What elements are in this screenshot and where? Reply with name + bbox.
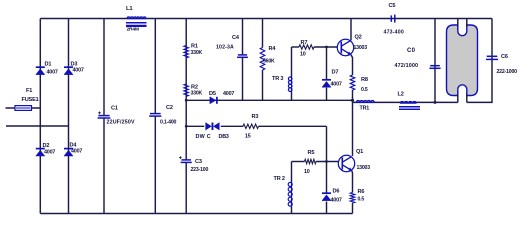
- capacitor C1: [98, 112, 111, 119]
- label C1: [111, 106, 118, 112]
- inductor L2: [399, 102, 420, 110]
- svg-text:R5: R5: [308, 150, 315, 156]
- wire C4 column: [242, 19, 244, 101]
- diode D1: [36, 67, 45, 74]
- svg-text:TR 2: TR 2: [274, 176, 285, 182]
- label Q2: [355, 35, 362, 41]
- resistor R7: [299, 45, 314, 49]
- node mid-rail/R2: [185, 99, 188, 102]
- svg-text:0.5: 0.5: [358, 197, 365, 203]
- svg-text:C4: C4: [232, 35, 240, 41]
- wire lamp bottom-left pin: [457, 94, 459, 103]
- label R4 value: [263, 59, 275, 65]
- svg-text:472/1000: 472/1000: [395, 63, 419, 69]
- svg-text:TR 3: TR 3: [272, 76, 283, 82]
- wire R6 to ground rail: [352, 203, 354, 214]
- wire left lamp branch (C0 branch): [434, 19, 436, 103]
- wire R4 column: [262, 19, 264, 101]
- zener DW right: [213, 123, 220, 130]
- label C1 value: [107, 120, 135, 126]
- label TR1: [360, 106, 370, 112]
- node L2/C0 junction: [434, 101, 437, 104]
- label D4: [70, 143, 83, 155]
- svg-text:Q2: Q2: [355, 35, 362, 41]
- transformer winding TR2: [288, 182, 292, 207]
- svg-text:C1: C1: [111, 106, 118, 112]
- svg-text:D2: D2: [43, 143, 50, 149]
- transformer winding TR1: [356, 100, 374, 102]
- wire C1 column: [103, 19, 105, 214]
- wire Q2 collector: [350, 19, 352, 41]
- transistor Q2: [337, 39, 353, 55]
- wire DW line: [186, 126, 326, 161]
- svg-text:13003: 13003: [354, 45, 368, 51]
- resistor R1: [184, 46, 189, 58]
- svg-text:C5: C5: [389, 3, 396, 9]
- wire D1/D2 column: [39, 19, 41, 214]
- label R8: [361, 77, 368, 93]
- capacitor C6: [486, 56, 498, 59]
- label D5: [209, 91, 234, 97]
- svg-text:D6: D6: [333, 189, 340, 195]
- fluorescent lamp tube: [447, 25, 478, 96]
- node D6/base junction: [325, 160, 328, 163]
- svg-text:L1: L1: [126, 6, 133, 12]
- label C5: [389, 3, 396, 9]
- label D3: [71, 62, 84, 74]
- svg-text:C0: C0: [407, 48, 416, 54]
- resistor R8: [350, 75, 355, 90]
- diode D5: [210, 97, 217, 104]
- svg-text:D1: D1: [45, 62, 52, 68]
- wire lamp bottom-left rail: [353, 101, 458, 103]
- svg-text:15: 15: [245, 134, 251, 140]
- diode D2: [36, 149, 45, 156]
- label Q2 value: [354, 45, 368, 51]
- svg-text:330K: 330K: [191, 91, 203, 97]
- label D1: [45, 62, 58, 76]
- label TR2: [274, 176, 285, 182]
- svg-text:22UF/250V: 22UF/250V: [107, 120, 135, 126]
- wire R8 to node: [352, 90, 354, 100]
- label C2: [166, 105, 173, 111]
- label C3 value: [191, 167, 209, 173]
- svg-text:2R4M: 2R4M: [127, 27, 139, 33]
- fuse F1: [15, 106, 32, 111]
- svg-text:R4: R4: [269, 46, 277, 52]
- label D7: [331, 70, 342, 88]
- label R3: [245, 114, 258, 140]
- wire D3/D4 column: [68, 19, 70, 214]
- svg-text:0.5: 0.5: [361, 87, 368, 93]
- label C4 value: [216, 45, 234, 51]
- wire lamp top-left pin: [457, 19, 459, 28]
- wire Q1 base wire: [292, 161, 339, 163]
- svg-text:10: 10: [300, 52, 306, 58]
- wire lamp bottom-right link: [467, 19, 492, 103]
- label C6 value: [497, 69, 518, 75]
- node half-bridge midpoint: [351, 99, 354, 102]
- wire R1/R2/C3 column: [185, 19, 187, 214]
- wire D7 column: [326, 47, 328, 100]
- wire Q2 emitter: [351, 55, 353, 76]
- label L2: [398, 92, 404, 98]
- svg-text:10: 10: [304, 169, 310, 175]
- wire TR2 column: [291, 162, 293, 214]
- wire AC live input: [6, 107, 41, 109]
- resistor R4: [260, 48, 265, 71]
- svg-text:R1: R1: [191, 44, 198, 50]
- wire lamp bottom-right pin: [466, 94, 468, 103]
- svg-text:0.1-400: 0.1-400: [160, 120, 177, 126]
- svg-text:C2: C2: [166, 105, 173, 111]
- label L1 value: [127, 27, 139, 33]
- svg-text:DB3: DB3: [219, 134, 229, 140]
- transistor Q1: [338, 155, 354, 171]
- svg-text:4007: 4007: [71, 149, 82, 155]
- label R2: [191, 85, 203, 97]
- svg-text:4007: 4007: [223, 91, 234, 97]
- label C5 value: [384, 30, 404, 36]
- svg-text:F1: F1: [26, 88, 32, 94]
- transformer winding TR3: [288, 77, 292, 92]
- label R7: [300, 40, 307, 58]
- capacitor C4: [237, 55, 248, 57]
- svg-text:R6: R6: [358, 189, 365, 195]
- inductor L1: [126, 17, 147, 26]
- label FUSE1: [22, 97, 39, 103]
- svg-text:R3: R3: [252, 114, 259, 120]
- svg-text:560K: 560K: [263, 59, 275, 65]
- label R1: [191, 44, 203, 57]
- label R6: [358, 189, 365, 203]
- svg-text:Q1: Q1: [356, 149, 363, 155]
- label F1: [26, 88, 32, 94]
- wire Q1 emitter: [351, 171, 354, 193]
- wire Q1 collector: [352, 100, 354, 156]
- svg-text:D5: D5: [209, 91, 216, 97]
- resistor R2: [184, 84, 189, 96]
- label L1: [126, 6, 133, 12]
- label Q1: [356, 149, 363, 155]
- diode D6: [322, 193, 331, 200]
- node D7/base junction: [325, 46, 328, 49]
- svg-text:L2: L2: [398, 92, 404, 98]
- label R4: [269, 46, 277, 52]
- zener DW left: [206, 123, 213, 130]
- label C0: [407, 48, 416, 54]
- svg-text:13003: 13003: [357, 165, 371, 171]
- wire bottom ground rail: [40, 213, 352, 215]
- wire mid rail (rectified DC node): [186, 99, 352, 101]
- label TR3: [272, 76, 283, 82]
- diode D4: [64, 149, 73, 156]
- svg-text:R8: R8: [361, 77, 368, 83]
- resistor R3: [243, 124, 259, 128]
- svg-text:C3: C3: [195, 159, 202, 165]
- svg-text:C6: C6: [501, 54, 508, 60]
- svg-text:DW C: DW C: [196, 134, 211, 140]
- svg-text:473-400: 473-400: [384, 30, 404, 36]
- label D6: [331, 189, 342, 204]
- wire TR3 column: [291, 47, 293, 100]
- capacitor C5: [391, 15, 395, 23]
- label C6: [501, 54, 508, 60]
- wire lamp top-right pin: [466, 19, 468, 28]
- svg-text:4007: 4007: [331, 82, 342, 88]
- capacitor C3: [179, 156, 192, 162]
- svg-text:4007: 4007: [331, 198, 342, 204]
- label D2: [43, 143, 56, 156]
- capacitor C2: [149, 114, 161, 117]
- wire AC neutral input: [6, 125, 69, 127]
- diode D7: [322, 80, 331, 87]
- label R5: [304, 150, 314, 175]
- svg-text:TR1: TR1: [360, 106, 370, 112]
- svg-text:223-100: 223-100: [191, 167, 209, 173]
- svg-text:R7: R7: [301, 40, 308, 46]
- resistor R6: [350, 193, 355, 204]
- svg-text:4007: 4007: [47, 70, 58, 76]
- svg-text:4007: 4007: [44, 150, 55, 156]
- svg-text:222-1000: 222-1000: [497, 69, 518, 75]
- node DW line tap: [185, 125, 188, 128]
- svg-text:102-3A: 102-3A: [216, 45, 234, 51]
- wire D6 column: [326, 162, 328, 214]
- capacitor C0: [429, 66, 440, 69]
- diode D3: [64, 67, 73, 74]
- label C3: [195, 159, 202, 165]
- label DIAC: [196, 134, 229, 140]
- svg-text:330K: 330K: [191, 50, 203, 56]
- label C2 value: [160, 120, 177, 126]
- label C4: [232, 35, 240, 41]
- svg-text:FUSE1: FUSE1: [22, 97, 39, 103]
- label C0 value: [395, 63, 419, 69]
- label Q1 value: [357, 165, 371, 171]
- svg-text:D7: D7: [332, 70, 339, 76]
- resistor R5: [305, 159, 317, 163]
- svg-text:4007: 4007: [73, 68, 84, 74]
- wire Q2 base wire: [292, 46, 338, 48]
- wire top supply rail: [40, 18, 492, 20]
- wire C2 column: [154, 19, 156, 214]
